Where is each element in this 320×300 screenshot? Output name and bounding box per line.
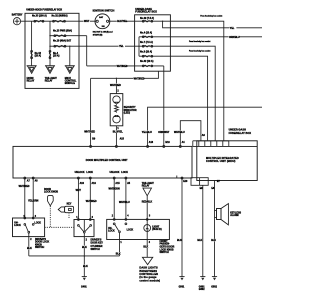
ground G502 bbox=[211, 277, 217, 289]
label ORN/BLU bbox=[229, 35, 240, 38]
label BLK bbox=[115, 252, 121, 255]
wire passenger switch to ground bus bbox=[119, 233, 121, 256]
wire No.32 output down to B19 bbox=[163, 66, 165, 146]
internal tick bbox=[176, 176, 178, 179]
svg-text:(LED): (LED) bbox=[124, 112, 130, 114]
door lock knob icon bbox=[44, 189, 58, 206]
svg-text:LOCK: LOCK bbox=[34, 222, 41, 224]
under-hood fuse/relay box bbox=[25, 13, 79, 88]
label WHT/BLU A4 bbox=[174, 131, 185, 134]
wire B9 vertical WHT/RED bbox=[90, 78, 92, 146]
MICU top connector cells bbox=[193, 141, 257, 147]
svg-text:SWITCH: SWITCH bbox=[35, 247, 45, 249]
svg-text:ORN/BLU: ORN/BLU bbox=[229, 37, 240, 39]
ground G401 bbox=[81, 277, 87, 289]
svg-text:WHT: WHT bbox=[84, 21, 90, 23]
ground G501 bbox=[179, 277, 185, 289]
wire E No.8 output to MICU bbox=[170, 56, 207, 141]
svg-text:control module): control module) bbox=[139, 278, 160, 282]
svg-text:WHT/RED: WHT/RED bbox=[134, 78, 145, 80]
label WHT/RED B9 bbox=[84, 130, 96, 133]
svg-text:WHT/BLU: WHT/BLU bbox=[119, 202, 130, 204]
svg-text:A15: A15 bbox=[120, 138, 125, 141]
node terminals on control unit top edge bbox=[90, 145, 182, 147]
wire taillight relay to light bbox=[146, 196, 148, 225]
svg-text:RELAY: RELAY bbox=[142, 185, 150, 188]
wire down to security indicator bbox=[115, 78, 117, 93]
svg-text:BLK: BLK bbox=[82, 247, 87, 249]
node junction No.29 branch bbox=[162, 21, 163, 22]
wire bridge MICU to A4 bbox=[180, 121, 201, 147]
fuse No.32 (10A) bbox=[135, 60, 164, 67]
door multiplex control unit bbox=[13, 146, 192, 178]
under-dash fuse/relay box bbox=[135, 15, 171, 71]
wire BLK/YEL ignition to under-dash box bbox=[109, 20, 135, 22]
switch SW1 driver's door lock knob switch bbox=[13, 217, 45, 237]
node junction security indicator tap bbox=[116, 78, 117, 79]
svg-text:BLK: BLK bbox=[116, 253, 121, 255]
wire vertical V2 taillight relay feed bbox=[49, 21, 51, 66]
svg-text:GER'S DOOR: GER'S DOOR bbox=[160, 247, 175, 249]
svg-text:RED/BLK: RED/BLK bbox=[142, 202, 153, 204]
svg-text:A10: A10 bbox=[80, 182, 85, 185]
svg-text:No.8 (20 A): No.8 (20 A) bbox=[140, 51, 152, 54]
wire fuse No.23 output corner down bbox=[86, 36, 88, 66]
wire A7 to lock knob switch bbox=[24, 178, 26, 218]
svg-text:BLU/YEL: BLU/YEL bbox=[113, 132, 124, 134]
svg-text:TAILLIGHT: TAILLIGHT bbox=[142, 182, 155, 185]
svg-text:LOCK: LOCK bbox=[86, 172, 93, 174]
fuse No.13 on V1 bbox=[31, 50, 42, 58]
label BLK light wire bbox=[143, 245, 149, 248]
svg-text:MODULE: MODULE bbox=[65, 83, 76, 85]
svg-text:BLK: BLK bbox=[197, 240, 202, 242]
svg-text:No.7 (7.5 A): No.7 (7.5 A) bbox=[140, 41, 153, 44]
svg-text:YEL/GRN: YEL/GRN bbox=[28, 200, 39, 202]
svg-text:No.33 (100 A): No.33 (100 A) bbox=[32, 15, 47, 18]
connector arrow dash lights brightness controller bbox=[139, 257, 160, 282]
wire to G401 bbox=[83, 256, 85, 277]
fuse No.32 (80A) bbox=[52, 15, 68, 23]
label YEL on wire bbox=[119, 45, 125, 48]
label YEL/BLU bbox=[141, 131, 152, 134]
svg-text:G401: G401 bbox=[81, 285, 87, 288]
wire A15 to passenger lock knob switch bbox=[113, 178, 115, 219]
svg-text:YEL: YEL bbox=[119, 46, 124, 48]
wire fuse No.23 branch bbox=[50, 35, 87, 37]
wire D No.7 output to MICU bbox=[170, 46, 215, 141]
fuse No.7 (7.5A) bbox=[135, 41, 171, 47]
fuse No.8 (20A) bbox=[139, 51, 170, 57]
svg-text:FUSE/RELAY BOX: FUSE/RELAY BOX bbox=[135, 10, 157, 13]
connector arrow taillight relay feed bbox=[142, 182, 155, 196]
svg-text:B19: B19 bbox=[165, 142, 170, 144]
label front passenger's door lock knob switch bbox=[160, 241, 175, 254]
wire lock knob switch to ground bus bbox=[28, 233, 30, 256]
svg-text:No.23 PWR (50A): No.23 PWR (50A) bbox=[53, 30, 72, 33]
svg-text:WHT/GRN: WHT/GRN bbox=[109, 188, 120, 190]
fuse No.10 (40A) bbox=[53, 40, 72, 48]
wire mechanical linkage key (dashed) bbox=[68, 213, 70, 220]
svg-text:From fuse/relay box socket: From fuse/relay box socket bbox=[200, 15, 222, 18]
wire C No.4 output ORN/BLU bbox=[170, 36, 262, 38]
node junction V2/No.10 bbox=[49, 46, 50, 47]
wire horizontal feed to A16 from right edge bbox=[148, 107, 262, 146]
wire WHT/RED feed to under-dash fuse 32 bbox=[87, 65, 135, 67]
svg-text:SWITCH: SWITCH bbox=[160, 252, 170, 254]
wire vertical V3 bbox=[69, 46, 71, 66]
svg-text:START (III): START (III) bbox=[93, 34, 103, 37]
svg-text:A16: A16 bbox=[149, 141, 154, 144]
fuse No.33 (100A) bbox=[32, 15, 47, 23]
wire ground bus bbox=[29, 255, 120, 257]
fuse No.23 (50A) bbox=[53, 30, 72, 37]
MICU box bbox=[197, 141, 257, 181]
node junction internal/No.7 bbox=[138, 46, 139, 47]
svg-text:A15: A15 bbox=[115, 182, 120, 185]
wire A8 to lock knob switch bbox=[32, 178, 34, 218]
connector arrow taillight relay bbox=[45, 66, 58, 83]
key icon bbox=[58, 204, 73, 213]
fuse No.4 (15A) bbox=[139, 32, 170, 38]
svg-text:WHT: WHT bbox=[76, 190, 82, 192]
svg-text:UNDER-HOOD FUSE/RELAY BOX: UNDER-HOOD FUSE/RELAY BOX bbox=[26, 8, 62, 11]
label BLK bbox=[27, 247, 33, 250]
wire MICU E9 to ground bbox=[202, 185, 204, 276]
node ground junction bbox=[84, 255, 86, 257]
svg-text:LOCK KNOB: LOCK KNOB bbox=[44, 192, 58, 194]
svg-text:DOOR LOCK: DOOR LOCK bbox=[35, 242, 50, 244]
label BLU/YEL bbox=[112, 130, 123, 133]
wire vertical V1 horn relay feed bbox=[31, 21, 33, 66]
svg-text:RELAY: RELAY bbox=[45, 80, 53, 83]
svg-text:KNOB: KNOB bbox=[35, 244, 42, 246]
label driver's door key cylinder switch bbox=[91, 240, 104, 251]
svg-text:KEY: KEY bbox=[67, 204, 72, 206]
svg-text:ORN/WHT: ORN/WHT bbox=[158, 132, 170, 134]
svg-text:IG1: IG1 bbox=[102, 26, 105, 28]
svg-text:G502: G502 bbox=[211, 286, 217, 288]
wire main feed inside under-hood box bbox=[25, 20, 79, 22]
wire A No.29 output to MICU bbox=[170, 21, 223, 141]
connector arrow MICU module bbox=[65, 66, 77, 85]
svg-text:BLK: BLK bbox=[27, 248, 32, 250]
svg-text:BLK: BLK bbox=[143, 247, 148, 249]
lamp L1 light in switch bbox=[144, 225, 162, 232]
svg-text:CYLINDER: CYLINDER bbox=[91, 246, 103, 248]
svg-text:No.4: No.4 bbox=[53, 52, 59, 55]
svg-text:LOCK: LOCK bbox=[14, 225, 21, 227]
label BLK E8 wire bbox=[211, 239, 217, 242]
wire fuse No.10 branch / YEL run to under-dash box bbox=[50, 45, 135, 47]
node terminals on control unit bottom edge bbox=[24, 177, 183, 179]
wire A10 to key cylinder switch bbox=[77, 178, 79, 220]
svg-text:No.10 (40A) BAT: No.10 (40A) BAT bbox=[53, 40, 72, 43]
svg-text:WHT/BLU: WHT/BLU bbox=[174, 132, 185, 134]
label BLK bbox=[82, 246, 88, 249]
svg-text:WHT/RED: WHT/RED bbox=[110, 85, 121, 87]
svg-text:No.4 (15 A): No.4 (15 A) bbox=[140, 32, 152, 35]
svg-text:DRIVER'S: DRIVER'S bbox=[91, 240, 102, 242]
label WHT/RED bbox=[116, 65, 128, 68]
wire E10 control unit to ground bbox=[181, 178, 183, 277]
wire WHT/RED stub from box bottom bbox=[91, 71, 159, 78]
label BLK ground wire bbox=[83, 265, 89, 268]
label WHT/RED bbox=[133, 77, 145, 80]
svg-text:G501: G501 bbox=[179, 286, 185, 288]
label RED/BLK bbox=[141, 200, 152, 203]
svg-text:(SUB ID): (SUB ID) bbox=[152, 229, 162, 231]
label WHT bbox=[84, 20, 90, 23]
label WHT/RED vertical bbox=[110, 83, 122, 86]
svg-text:BLK: BLK bbox=[177, 240, 182, 242]
label ORN/WHT B19 bbox=[158, 131, 170, 134]
svg-text:WHT/RED: WHT/RED bbox=[86, 201, 97, 203]
svg-text:INDICATOR: INDICATOR bbox=[124, 109, 137, 112]
switch SW2 driver's door key cylinder switch bbox=[74, 219, 94, 237]
svg-text:CONTROL UNIT (MICU): CONTROL UNIT (MICU) bbox=[206, 160, 236, 163]
svg-text:LOCK KNOB: LOCK KNOB bbox=[160, 249, 174, 251]
svg-text:DOOR MULTIPLEX CONTROL UNIT: DOOR MULTIPLEX CONTROL UNIT bbox=[86, 159, 128, 162]
wire branch to YEL output B bbox=[163, 21, 262, 28]
fuse No.29 (7.5A) bbox=[135, 17, 171, 22]
svg-text:IGNITION SWITCH: IGNITION SWITCH bbox=[93, 9, 115, 12]
wire WHT under-hood box to ignition bbox=[79, 20, 96, 22]
svg-text:BLK/YEL: BLK/YEL bbox=[117, 21, 128, 23]
battery B1 bbox=[12, 13, 23, 24]
wire A5 to passenger lock knob switch bbox=[125, 178, 127, 219]
svg-text:FUSE/RELAY BOX: FUSE/RELAY BOX bbox=[229, 132, 252, 135]
svg-text:No.32 (80/50A): No.32 (80/50A) bbox=[52, 15, 68, 18]
svg-text:RELAY: RELAY bbox=[27, 80, 35, 83]
svg-text:ALARM: ALARM bbox=[230, 214, 238, 217]
label driver's door lock knob switch bbox=[35, 239, 50, 249]
speaker keyless alarm bbox=[215, 204, 242, 225]
fuse No.4 on V2 bbox=[49, 50, 60, 58]
wire mechanical linkage knob (dashed) bbox=[45, 206, 74, 227]
svg-text:UNLOCK: UNLOCK bbox=[75, 172, 85, 174]
svg-text:BATTERY: BATTERY bbox=[12, 13, 23, 16]
svg-text:SWITCH: SWITCH bbox=[91, 249, 101, 251]
MICU bottom connector cells bbox=[191, 178, 208, 186]
svg-text:PASSEN-: PASSEN- bbox=[160, 243, 170, 246]
svg-text:IG1 HOT in ON (II) and: IG1 HOT in ON (II) and bbox=[93, 32, 114, 34]
wire battery to under-hood box bbox=[21, 20, 25, 22]
svg-text:DRIVER'S: DRIVER'S bbox=[35, 239, 46, 241]
svg-text:No.32 (10 A): No.32 (10 A) bbox=[140, 60, 154, 63]
svg-text:No.29 (7.5 A): No.29 (7.5 A) bbox=[140, 17, 154, 20]
wire MICU E8 to ground bbox=[214, 181, 216, 277]
svg-text:YEL/BLU: YEL/BLU bbox=[142, 132, 152, 134]
wire security indicator to A15 bbox=[115, 126, 117, 147]
node junction V2/No.23 bbox=[49, 35, 50, 36]
label wire B bbox=[229, 26, 236, 29]
svg-text:DOOR KEY: DOOR KEY bbox=[91, 243, 104, 245]
svg-text:(15 A): (15 A) bbox=[35, 54, 42, 57]
svg-text:LOCK: LOCK bbox=[127, 230, 134, 232]
svg-text:LOCK: LOCK bbox=[121, 172, 128, 174]
switch SW3 front passenger's door lock knob switch with light bbox=[107, 219, 170, 240]
ground G601/G602 bbox=[199, 277, 206, 291]
label BLK/YEL bbox=[117, 20, 128, 23]
ignition switch bbox=[93, 9, 115, 36]
wire A19 to key cylinder switch bbox=[89, 178, 91, 220]
svg-text:BLK: BLK bbox=[211, 240, 216, 242]
svg-text:WHT/RED: WHT/RED bbox=[84, 132, 95, 134]
svg-text:G602: G602 bbox=[199, 289, 205, 291]
svg-text:FRONT: FRONT bbox=[160, 241, 169, 243]
node junction V3 bbox=[69, 46, 70, 47]
svg-text:A19: A19 bbox=[92, 182, 97, 185]
wire light to dash brightness controller bbox=[146, 231, 148, 257]
security indicator bbox=[110, 94, 137, 126]
svg-text:LOCK: LOCK bbox=[108, 231, 115, 233]
svg-text:WHT/RED: WHT/RED bbox=[117, 66, 128, 68]
wire key cylinder switch to ground bus bbox=[83, 233, 85, 256]
svg-text:E10: E10 bbox=[183, 181, 188, 183]
svg-text:UNLOCK: UNLOCK bbox=[110, 172, 120, 174]
svg-text:(15 A): (15 A) bbox=[53, 54, 60, 57]
node junction No.23/YEL bbox=[86, 46, 87, 47]
svg-text:YEL: YEL bbox=[230, 28, 235, 30]
svg-text:WHT/RED: WHT/RED bbox=[19, 186, 30, 188]
wire internal feed vertical bbox=[138, 37, 140, 56]
connector arrow horn relay bbox=[27, 66, 37, 83]
svg-text:BLK: BLK bbox=[83, 266, 88, 268]
